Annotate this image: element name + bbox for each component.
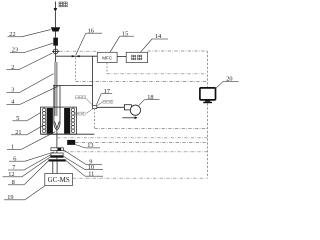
- tube through rows: [56, 151, 58, 160]
- line trapezoid to seal: [54, 32, 56, 38]
- exhaust arrow: [122, 117, 135, 119]
- tiny label 第三阀: [75, 112, 85, 115]
- left heater bar: [47, 108, 53, 134]
- valve16 control line to bus: [76, 81, 208, 83]
- svg-text:MFC: MFC: [102, 56, 113, 61]
- junction control drop (dashed): [94, 109, 96, 129]
- column line below liner: [56, 130, 58, 148]
- sensor 13 (black square): [67, 140, 75, 145]
- bus vertical lower: [207, 103, 209, 178]
- sample inlet arrow: [54, 2, 56, 28]
- connector MFC to carrier box: [117, 56, 126, 58]
- tiny label 第二阀: [76, 96, 86, 99]
- monitor 20: [200, 88, 216, 100]
- valve 2 (circle with cross): [52, 46, 59, 62]
- junction control line to bus: [95, 128, 208, 130]
- tube sensor line to bus: [57, 137, 208, 139]
- GC-MS box 19: [45, 174, 73, 186]
- heater bottom line extension: [41, 133, 95, 135]
- outer liner tube: [54, 85, 60, 129]
- valve16 control drop (dashed): [75, 57, 77, 81]
- 载气 glyphs: [132, 55, 142, 60]
- carrier gas line valve2 - MFC: [56, 55, 98, 57]
- twin lines to GC-MS: [52, 162, 54, 174]
- control line valve2 (dash-dot right): [59, 50, 97, 52]
- top plate line: [53, 84, 93, 86]
- transfer line down from carrier tee: [92, 56, 94, 105]
- row 8 (wide black bar): [49, 159, 66, 161]
- pump 18: [124, 105, 131, 110]
- seal 23 (black rectangle): [53, 38, 58, 46]
- tiny label 第一阀: [103, 100, 113, 103]
- svg-text:GC-MS: GC-MS: [48, 176, 70, 184]
- dash-dot carrier box to bus corner: [148, 50, 208, 52]
- MFC control line to bus: [107, 73, 208, 75]
- row 12 (black bar): [50, 156, 63, 158]
- bus vertical upper (to monitor): [207, 51, 209, 88]
- heater block outer rect: [41, 107, 77, 134]
- MFC box 15: [97, 52, 117, 62]
- MFC control drop (dashed): [106, 63, 108, 74]
- right heater bar: [64, 108, 70, 134]
- septum nut 22 (black trapezoid): [51, 27, 60, 31]
- row 7 (open rect): [51, 153, 63, 156]
- junction to pump line: [97, 106, 125, 108]
- valve 16 (bowtie): [72, 55, 76, 57]
- left heating coil 21: [42, 108, 46, 132]
- right heating coil: [71, 108, 75, 132]
- carrier gas box 14: [126, 52, 147, 62]
- inner capillary tube (3/4): [55, 62, 57, 116]
- junction leaders to tiny valve labels: [86, 98, 103, 113]
- fitting row 6/9: [51, 148, 64, 151]
- interface junction 17: [93, 106, 97, 109]
- GC-MS control line to bus: [73, 177, 208, 179]
- fitting control line to bus: [64, 151, 208, 153]
- label 进样 (sample in): [59, 2, 67, 7]
- sensor 13 line to bus: [75, 141, 207, 143]
